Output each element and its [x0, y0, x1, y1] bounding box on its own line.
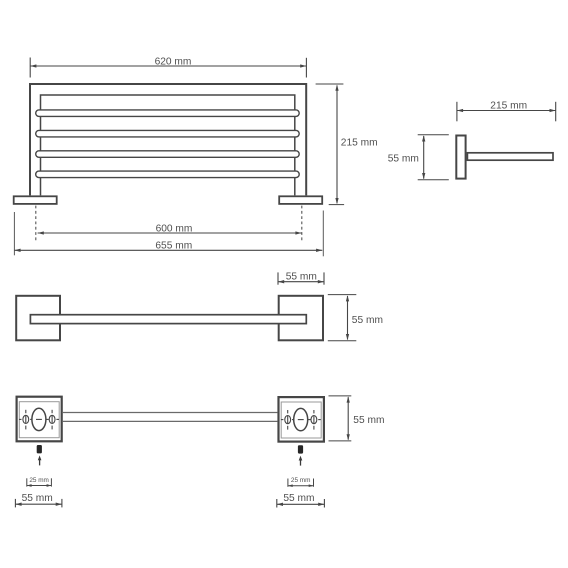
dim 655 mm: extension line right: [322, 211, 324, 257]
dim 55 mm side: arrowhead bottom: [422, 173, 425, 179]
dim 55 mm bar top: dimension line: [278, 281, 324, 283]
side wall plate: [456, 136, 465, 179]
shelf bar 1: [36, 110, 300, 117]
dim 25 mm right: dimension line: [288, 485, 314, 487]
dim 55 mm bottom-right: dimension line: [277, 503, 325, 505]
dim 215 mm side: arrowhead right: [550, 109, 556, 112]
dim 215 mm front: arrowhead top: [335, 85, 338, 91]
bottom bar top line: [63, 412, 278, 414]
screw right-left: [281, 410, 294, 430]
dim 55 mm plate right: arrowhead top: [347, 396, 350, 402]
dim 55 mm plate right: dimension line: [347, 397, 349, 439]
dim 600 mm: dimension line: [38, 232, 302, 234]
wall anchor pin left: [37, 445, 42, 453]
svg-text:55 mm: 55 mm: [352, 315, 383, 326]
dim 215 mm side: extension tick left: [456, 102, 458, 122]
dim 55 mm bar right: extension tick top: [328, 294, 357, 296]
svg-text:655 mm: 655 mm: [155, 240, 192, 251]
dim 215 mm side: dimension line: [457, 110, 556, 112]
dim 55 mm bar right: dimension line: [347, 296, 349, 340]
dim 55 mm bottom-right: tick right: [323, 499, 325, 508]
mount plate left outer: [17, 397, 62, 442]
dim 25 mm right: tick right: [313, 479, 315, 487]
shelf outer frame: [30, 84, 306, 195]
dim 55 mm bar right: extension tick bottom: [328, 340, 357, 342]
mount plate right center hole: [294, 408, 308, 430]
dim 620 mm: extension tick left: [29, 58, 31, 78]
dim 55 mm bottom-left: tick right: [61, 499, 63, 508]
dim 655 mm: arrowhead left: [14, 249, 20, 252]
anchor arrow right: [300, 459, 302, 466]
svg-text:620 mm: 620 mm: [155, 56, 192, 67]
dim 620 mm: extension tick right: [305, 58, 307, 78]
dim 600 mm: arrowhead left: [38, 231, 44, 234]
svg-text:215 mm: 215 mm: [341, 137, 378, 148]
wall foot right: [279, 196, 322, 204]
svg-text:55 mm: 55 mm: [388, 153, 419, 164]
shelf bar 4: [36, 171, 300, 178]
shelf bar 3: [36, 151, 300, 158]
dim 25 mm left: tick right: [50, 478, 52, 486]
dim 620 mm: arrowhead left: [30, 64, 36, 67]
mount plate left center hole: [32, 408, 46, 430]
mount plate left inner: [19, 402, 59, 438]
anchor arrow left: [39, 459, 41, 466]
dim 55 mm bottom-left: tick left: [14, 499, 16, 508]
dim 25 mm left: arrowhead right: [47, 484, 52, 487]
dim 215 mm front: dimension line: [336, 86, 338, 204]
dim 55 mm bottom-left: arrowhead left: [15, 503, 21, 506]
dim 55 mm bottom-left: dimension line: [15, 503, 62, 505]
dim 55 mm side: arrowhead top: [422, 135, 425, 141]
shelf inner rail: [41, 95, 295, 195]
dim 25 mm left: arrowhead left: [27, 484, 32, 487]
dim 620 mm: arrowhead right: [300, 64, 306, 67]
dim 55 mm bottom-right: arrowhead right: [318, 503, 324, 506]
screw left-right: [46, 410, 59, 430]
wall foot left: [14, 196, 57, 204]
mount plate left center mark: [36, 418, 42, 420]
dim 55 mm bar right: arrowhead bottom: [346, 334, 349, 340]
dim 55 mm bar right: arrowhead top: [346, 295, 349, 301]
centerline dashed right: [301, 206, 303, 243]
dim 25 mm left: tick left: [26, 478, 28, 486]
dim 655 mm: arrowhead right: [316, 249, 322, 252]
dim 215 mm front: extension tick top: [316, 83, 344, 85]
dim 215 mm side: extension tick right: [555, 102, 557, 122]
side bar: [467, 153, 553, 160]
svg-text:55 mm: 55 mm: [286, 271, 317, 282]
shelf bar 2: [36, 130, 300, 137]
dim 55 mm side: extension tick bottom: [418, 179, 449, 181]
dim 55 mm plate right: arrowhead bottom: [347, 434, 350, 440]
dim 620 mm: dimension line: [30, 65, 306, 67]
dim 215 mm front: arrowhead bottom: [335, 198, 338, 204]
dim 25 mm right: tick left: [287, 479, 289, 487]
wall anchor pin right: [298, 445, 303, 453]
dim 55 mm plate right: extension tick top: [329, 395, 352, 397]
dim 55 mm bottom-right: arrowhead left: [277, 503, 283, 506]
centerline dashed left: [35, 206, 37, 243]
dim 55 mm side: extension tick top: [418, 134, 449, 136]
svg-text:25 mm: 25 mm: [291, 477, 311, 484]
svg-text:55 mm: 55 mm: [22, 493, 53, 504]
dim 55 mm bar top: arrowhead left: [278, 280, 284, 283]
dim 25 mm right: arrowhead right: [309, 484, 314, 487]
dim 655 mm: extension line left: [13, 212, 15, 255]
screw left-left: [19, 410, 32, 430]
bar square left: [16, 296, 60, 341]
mount plate right center mark: [298, 419, 304, 421]
dim 25 mm left: dimension line: [27, 485, 52, 487]
towel bar body: [30, 315, 306, 324]
screw right-right: [308, 410, 321, 430]
dim 55 mm plate right: extension tick bottom: [329, 440, 352, 442]
svg-text:215 mm: 215 mm: [490, 100, 527, 111]
dim 55 mm bottom-right: tick left: [276, 499, 278, 508]
svg-text:55 mm: 55 mm: [353, 415, 384, 426]
svg-text:600 mm: 600 mm: [156, 223, 193, 234]
dim 55 mm bottom-left: arrowhead right: [56, 503, 62, 506]
dim 215 mm front: extension tick bottom: [329, 204, 344, 206]
dim 55 mm bar top: extension tick left: [277, 272, 279, 284]
dim 55 mm bar top: extension tick right: [323, 272, 325, 284]
dim 600 mm: arrowhead right: [295, 231, 301, 234]
dim 215 mm side: arrowhead left: [457, 109, 463, 112]
dim 55 mm bar top: arrowhead right: [318, 280, 324, 283]
mount plate right outer: [279, 397, 324, 442]
svg-text:25 mm: 25 mm: [29, 477, 49, 484]
mount plate right inner: [281, 402, 321, 438]
dim 25 mm right: arrowhead left: [288, 484, 293, 487]
bar square right: [279, 296, 323, 341]
dim 655 mm: dimension line: [14, 249, 322, 251]
dim 55 mm side: dimension line: [423, 136, 425, 179]
svg-text:55 mm: 55 mm: [283, 493, 314, 504]
bottom bar bottom line: [63, 420, 278, 422]
